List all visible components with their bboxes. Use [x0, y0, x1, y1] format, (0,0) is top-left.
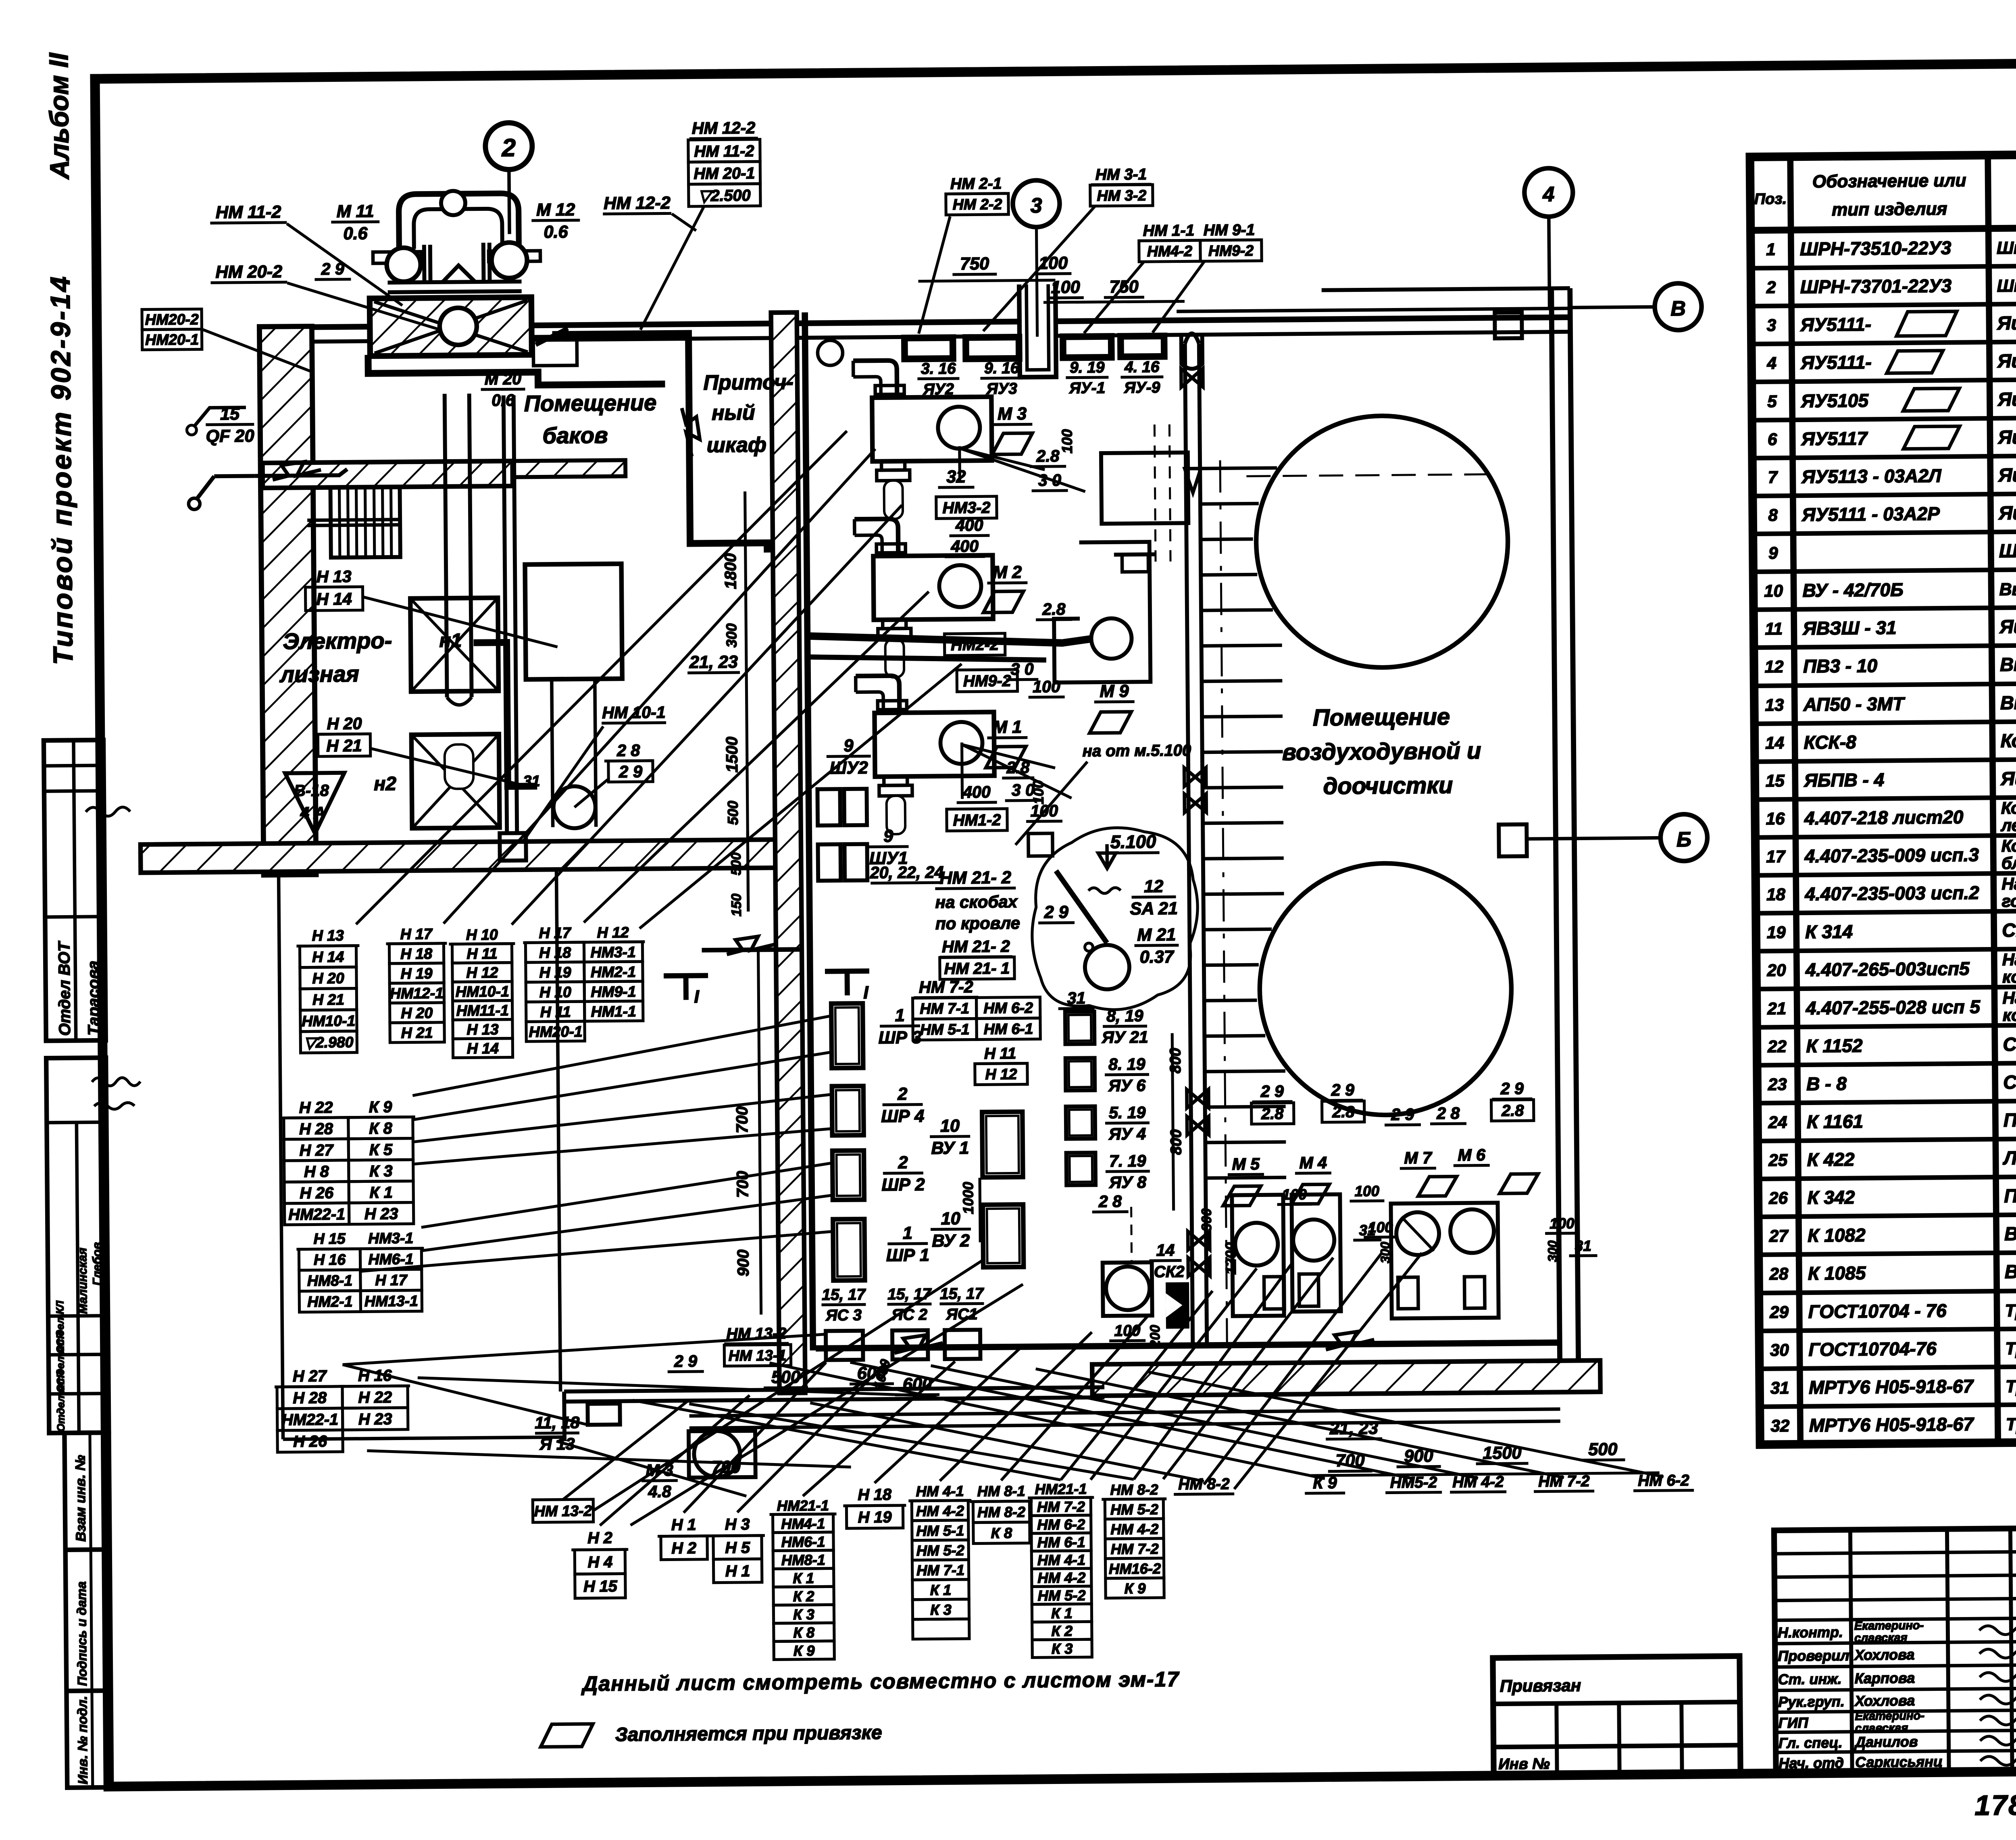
svg-text:КСК-8: КСК-8: [1804, 731, 1856, 753]
svg-text:1: 1: [1766, 240, 1776, 259]
svg-text:28: 28: [1769, 1264, 1789, 1283]
svg-text:20, 22, 24: 20, 22, 24: [870, 863, 944, 882]
svg-text:Н 8: Н 8: [304, 1163, 329, 1180]
svg-text:7: 7: [1768, 468, 1778, 487]
leader from на от м: [1015, 762, 1088, 845]
svg-text:Н 3: Н 3: [725, 1515, 750, 1533]
top dimension row 2: [1043, 277, 1184, 302]
svg-text:К 1: К 1: [793, 1570, 814, 1586]
valve on air pipe 4: [1187, 1089, 1208, 1108]
svg-text:НМ 3-1: НМ 3-1: [1095, 166, 1147, 183]
hall right wall top connection: [1322, 288, 1570, 290]
valve on air pipe 6: [1188, 1231, 1210, 1250]
svg-text:К 1082: К 1082: [1808, 1224, 1866, 1246]
svg-text:Приточ-: Приточ-: [703, 370, 793, 395]
svg-text:4.407-235-009 исп.3: 4.407-235-009 исп.3: [1804, 844, 1979, 866]
svg-text:Н 21: Н 21: [326, 736, 362, 755]
dims 500/600/600 bottom: [764, 1363, 940, 1396]
svg-text:Н 26: Н 26: [293, 1432, 327, 1451]
svg-text:М 21: М 21: [1137, 925, 1176, 945]
label М3 with parallelogram: [992, 404, 1033, 454]
svg-text:7. 19: 7. 19: [1109, 1151, 1146, 1170]
ШР3 cabinet: [831, 1003, 863, 1068]
svg-text:ШР 2: ШР 2: [881, 1175, 925, 1195]
wall stub square В: [1495, 312, 1522, 339]
svg-text:29: 29: [1769, 1303, 1789, 1322]
svg-text:К 9: К 9: [1125, 1580, 1146, 1596]
svg-text:Нач. отд: Нач. отд: [1779, 1755, 1844, 1771]
svg-text:К 3: К 3: [793, 1606, 814, 1623]
svg-text:31: 31: [1359, 1222, 1375, 1238]
svg-text:НМ10-1: НМ10-1: [302, 1012, 355, 1030]
svg-text:5: 5: [1767, 392, 1777, 411]
svg-text:К 5: К 5: [369, 1141, 393, 1159]
ЯУ8 box: [1066, 1153, 1096, 1185]
central vertical wall hatched (shaft): [771, 312, 805, 1393]
svg-text:НМ20-2: НМ20-2: [145, 311, 199, 328]
note: Заполняется при привязке: [541, 1724, 593, 1747]
valve on air pipe 5: [1187, 1116, 1209, 1135]
svg-text:НМ 4-1: НМ 4-1: [1037, 1551, 1085, 1568]
svg-text:по кровле: по кровле: [935, 914, 1020, 933]
electrolysis room bottom wall hatched: [140, 839, 778, 872]
svg-text:Альбом II: Альбом II: [44, 52, 74, 180]
pump unit М3 (upper): [853, 360, 992, 519]
label НМ1-2 box: [947, 809, 1007, 831]
svg-text:блочного ящика ЯБПВ (настенный: блочного ящика ЯБПВ (настенный): [2001, 851, 2016, 873]
svg-text:Ящик управления ЯУ21: Ящик управления ЯУ21: [1998, 500, 2016, 523]
table header: [1754, 166, 2016, 222]
svg-text:НМ3-1: НМ3-1: [590, 943, 636, 961]
ШР1 cabinet: [833, 1219, 865, 1281]
svg-text:конструкция с закладными подве: конструкция с закладными подвесками: [2003, 1003, 2016, 1025]
svg-text:НМ9-2: НМ9-2: [963, 672, 1011, 690]
svg-text:4.407-265-003исп5: 4.407-265-003исп5: [1805, 958, 1970, 980]
svg-text:8: 8: [1768, 506, 1778, 525]
svg-text:100: 100: [1549, 1215, 1574, 1232]
svg-text:8. 19: 8. 19: [1108, 1055, 1145, 1074]
svg-text:НМ 4-2: НМ 4-2: [916, 1503, 964, 1519]
ЯУ6 box: [1066, 1058, 1095, 1091]
svg-text:750: 750: [960, 254, 989, 274]
svg-text:Ящик управления ЯУ6: Ящик управления ЯУ6: [1997, 425, 2016, 448]
svg-text:В-18: В-18: [294, 782, 329, 800]
label НМ3-1/НМ3-2: [1090, 166, 1153, 206]
svg-text:лизная: лизная: [279, 661, 359, 687]
level dash line: [578, 337, 687, 338]
svg-text:Стойка (профиль): Стойка (профиль): [2003, 1070, 2016, 1093]
ВУ2 box: [983, 1205, 1024, 1268]
svg-text:баков: баков: [542, 423, 608, 448]
svg-text:Ввод гибкий: Ввод гибкий: [2005, 1260, 2016, 1282]
svg-text:на скобах: на скобах: [935, 892, 1018, 912]
svg-text:К 9: К 9: [793, 1642, 815, 1659]
svg-text:Н 15: Н 15: [583, 1578, 618, 1596]
svg-text:НМ 13-1: НМ 13-1: [729, 1347, 787, 1364]
svg-text:НМ13-1: НМ13-1: [364, 1292, 418, 1309]
text НМ21-2 на скобах по кровле: [935, 868, 1020, 933]
svg-text:Екатерино-: Екатерино-: [1854, 1619, 1924, 1632]
svg-text:НМ 5-2: НМ 5-2: [1110, 1501, 1158, 1518]
svg-text:ЯУ5111 - 03А2Р: ЯУ5111 - 03А2Р: [1801, 503, 1940, 525]
cable drop to riser (thick): [474, 642, 537, 787]
svg-text:Стойка (профиль): Стойка (профиль): [2002, 918, 2016, 941]
svg-text:АП50 - 3МТ: АП50 - 3МТ: [1803, 693, 1906, 715]
svg-text:17897-02 51: 17897-02 51: [1974, 1788, 2016, 1821]
svg-text:М 20: М 20: [485, 369, 522, 388]
svg-text:19: 19: [1767, 923, 1786, 942]
svg-text:НМ6-1: НМ6-1: [368, 1250, 414, 1268]
svg-text:ВУ - 42/70Б: ВУ - 42/70Б: [1802, 579, 1903, 601]
specification table grid: [1750, 151, 2016, 1445]
svg-text:НМ20-1: НМ20-1: [529, 1023, 582, 1040]
svg-text:2: 2: [1766, 278, 1776, 297]
pump pipes loop: [399, 193, 519, 249]
bottom wall hatched band: [1092, 1360, 1601, 1396]
svg-text:СК2: СК2: [1154, 1263, 1185, 1281]
svg-text:НМ6-1: НМ6-1: [781, 1533, 825, 1550]
svg-text:Поз.: Поз.: [1754, 191, 1787, 208]
fan leaders from bottom stacks to plan (up-right steep): [561, 1253, 1424, 1526]
dim marks 500/150 left shaft: [728, 831, 748, 916]
svg-text:НМ 6-2: НМ 6-2: [983, 999, 1033, 1016]
svg-text:го ящика ЯВЗШ: го ящика ЯВЗШ: [2001, 891, 2016, 911]
svg-text:Н 11: Н 11: [984, 1045, 1016, 1063]
svg-text:Гл. спец.: Гл. спец.: [1779, 1734, 1843, 1751]
label Н11/Н12: [975, 1045, 1027, 1085]
svg-text:НМ 8-2: НМ 8-2: [1110, 1481, 1158, 1498]
leader НМ9-2: [1152, 261, 1205, 333]
svg-text:Данилов: Данилов: [1854, 1733, 1918, 1750]
svg-text:Коробка соединительная СК2: Коробка соединительная СК2: [2000, 728, 2016, 751]
svg-text:Отдел ВОТ: Отдел ВОТ: [55, 940, 74, 1036]
svg-text:12: 12: [1144, 877, 1163, 896]
riser double line: [504, 395, 507, 833]
svg-text:32: 32: [946, 467, 966, 487]
svg-text:НМ 5-1: НМ 5-1: [920, 1021, 970, 1038]
svg-text:Малинская: Малинская: [76, 1247, 90, 1314]
svg-text:750: 750: [1109, 277, 1138, 297]
stack M НМ 4-1/НМ 4-2/НМ 5-1/НМ 5-2/НМ 7-1/К 1/К 3/: [908, 1483, 973, 1639]
svg-text:200: 200: [1148, 1325, 1163, 1348]
svg-text:Н 17: Н 17: [539, 924, 572, 941]
svg-text:Н 17: Н 17: [400, 925, 433, 943]
leader НМ3-2: [982, 206, 1096, 331]
svg-text:ПВ3 - 10: ПВ3 - 10: [1803, 655, 1878, 676]
svg-text:31: 31: [1770, 1378, 1789, 1397]
svg-text:700: 700: [733, 1106, 752, 1133]
svg-text:К 3: К 3: [930, 1601, 952, 1618]
wall left outer hatched: [259, 326, 316, 875]
ЯС3 box: [826, 1331, 863, 1360]
svg-text:НМ11-1: НМ11-1: [456, 1002, 509, 1019]
svg-text:НМ 8-1: НМ 8-1: [977, 1483, 1025, 1500]
table rows: [1761, 233, 2016, 1436]
svg-text:Выключатель автоматический Q: Выключатель автоматический QF20: [2000, 689, 2016, 713]
svg-text:ЯУ5105: ЯУ5105: [1801, 390, 1869, 411]
svg-text:НМ 3-2: НМ 3-2: [1097, 187, 1146, 204]
svg-text:100: 100: [1030, 801, 1058, 820]
pump unit М1 (lower): [856, 675, 995, 835]
svg-text:Н 14: Н 14: [316, 589, 352, 609]
leader НМ1-1: [1083, 262, 1144, 333]
svg-text:Н 28: Н 28: [299, 1120, 333, 1138]
break mark on bottom wall 2: [1326, 1332, 1374, 1350]
svg-text:НМ 5-1: НМ 5-1: [916, 1522, 964, 1539]
svg-text:500: 500: [725, 801, 741, 825]
svg-text:Рук.груп.: Рук.груп.: [1778, 1693, 1845, 1710]
svg-text:2 9: 2 9: [619, 762, 643, 781]
svg-text:ЯУ5111-: ЯУ5111-: [1800, 314, 1871, 335]
svg-text:К 3: К 3: [369, 1162, 393, 1180]
svg-text:Н 1: Н 1: [725, 1562, 750, 1580]
svg-text:24: 24: [1768, 1113, 1787, 1132]
svg-text:Н 12: Н 12: [597, 924, 629, 941]
cloud outline: [1031, 827, 1198, 1010]
svg-text:ЯБПВ - 4: ЯБПВ - 4: [1804, 769, 1884, 791]
label М9 + parallelogram: [1089, 681, 1135, 733]
svg-text:Н 23: Н 23: [364, 1205, 398, 1223]
svg-text:5. 19: 5. 19: [1109, 1103, 1146, 1122]
svg-text:воздуходувной и: воздуходувной и: [1282, 738, 1481, 766]
ШР2 cabinet: [832, 1151, 864, 1200]
svg-text:2.8: 2.8: [1036, 447, 1060, 465]
svg-text:▽2.500: ▽2.500: [698, 187, 751, 205]
svg-text:20: 20: [1766, 961, 1786, 980]
svg-text:Обозначение или: Обозначение или: [1812, 171, 1966, 191]
pump circle with box bottom: [1103, 1262, 1152, 1316]
svg-text:В - 8: В - 8: [1806, 1073, 1847, 1095]
svg-text:К 422: К 422: [1807, 1149, 1855, 1170]
svg-text:Подвеска закладная: Подвеска закладная: [2004, 1184, 2016, 1207]
М9 platform rect: [1054, 542, 1151, 683]
svg-text:НМ1-2: НМ1-2: [953, 811, 1001, 829]
svg-text:ЯУ5113 - 03А2Л: ЯУ5113 - 03А2Л: [1801, 465, 1942, 487]
valve cone 1: [1185, 468, 1201, 493]
svg-text:Комплект установки ящика управ: Комплект установки ящика управ-: [2001, 796, 2016, 818]
stair block: [307, 487, 400, 558]
svg-text:Ящик силовой Я13: Ящик силовой Я13: [1999, 614, 2016, 637]
tank circle 2: [1259, 862, 1512, 1116]
label НМ7-2 + boxes: [912, 977, 1040, 1040]
svg-text:НМ 7-2: НМ 7-2: [919, 978, 973, 997]
svg-text:Екатерино-: Екатерино-: [1855, 1709, 1924, 1723]
wall stub square Б: [1499, 824, 1527, 857]
svg-text:конструкция высотой 800мм с по: конструкция высотой 800мм с полками: [2002, 965, 2016, 987]
hall right wall double line: [1552, 288, 1560, 1393]
svg-text:Глебов: Глебов: [90, 1242, 104, 1286]
svg-text:2 9: 2 9: [1391, 1105, 1414, 1124]
building lower-left outline: [279, 873, 564, 1439]
svg-text:Н 19: Н 19: [539, 964, 571, 981]
break line at shaft mid: [702, 936, 802, 955]
svg-text:Труба полиэтиленовая 6-20: Труба полиэтиленовая 6-20 ПНП: [2006, 1375, 2016, 1397]
svg-text:Н 19: Н 19: [400, 965, 433, 982]
svg-text:НМ 13-2: НМ 13-2: [534, 1502, 592, 1519]
svg-text:150: 150: [729, 893, 744, 916]
svg-text:I: I: [694, 987, 699, 1007]
svg-text:ШРН-73701-22У3: ШРН-73701-22У3: [1800, 275, 1951, 297]
QF20 switch symbol: [188, 476, 255, 510]
label НМ3-2 box: [936, 496, 997, 518]
ШУ cabinet boxes pair 2: [818, 844, 867, 881]
svg-text:Н 27: Н 27: [293, 1367, 327, 1385]
svg-text:25: 25: [1768, 1151, 1788, 1170]
valve on air pipe 1: [1181, 368, 1203, 387]
svg-text:НМ 5-2: НМ 5-2: [916, 1542, 964, 1559]
air pipe top cap: [1185, 333, 1199, 343]
top dimension row 1: [918, 254, 1072, 281]
svg-text:Н 10: Н 10: [539, 983, 572, 1001]
svg-text:4: 4: [1766, 354, 1776, 373]
svg-text:5.100: 5.100: [1110, 831, 1156, 852]
svg-text:Н 17: Н 17: [375, 1272, 408, 1289]
svg-text:Н 19: Н 19: [858, 1508, 892, 1526]
svg-text:800: 800: [1168, 1129, 1185, 1155]
svg-text:Н 1: Н 1: [671, 1516, 696, 1534]
svg-text:Б: Б: [1677, 828, 1691, 851]
electrolyzer unit 2 (square with X): [411, 734, 500, 828]
svg-text:НМ 5-2: НМ 5-2: [1037, 1587, 1085, 1604]
svg-text:Отдел АСП: Отдел АСП: [54, 1370, 67, 1432]
svg-text:М 2: М 2: [993, 563, 1022, 583]
svg-text:13: 13: [1765, 695, 1784, 714]
svg-text:НМ 1-1: НМ 1-1: [1143, 222, 1195, 239]
svg-text:ГОСТ10704-76: ГОСТ10704-76: [1808, 1338, 1937, 1360]
svg-text:НМ 7-1: НМ 7-1: [916, 1562, 964, 1579]
svg-text:0.6: 0.6: [343, 224, 368, 243]
svg-text:9: 9: [1768, 543, 1778, 562]
ЯС1 box: [945, 1330, 981, 1359]
svg-text:Н 10: Н 10: [466, 926, 498, 943]
svg-text:НМ 7-2: НМ 7-2: [1037, 1498, 1085, 1515]
bottom foundation lines right: [689, 1409, 1560, 1416]
label М7 + para: [1400, 1148, 1457, 1196]
svg-text:НМ 7-1: НМ 7-1: [920, 1000, 969, 1017]
svg-text:I: I: [863, 983, 868, 1003]
ШУ cabinet boxes pair 1: [817, 789, 867, 826]
svg-text:3 0: 3 0: [1012, 781, 1035, 799]
svg-text:0.6: 0.6: [544, 222, 568, 241]
svg-text:26: 26: [1768, 1189, 1788, 1207]
svg-text:Хохлова: Хохлова: [1854, 1692, 1915, 1709]
svg-text:Выключатель пакетный SA21: Выключатель пакетный SA21: [2000, 651, 2016, 675]
svg-text:8, 19: 8, 19: [1106, 1006, 1143, 1025]
svg-text:Настенная одиночная кабельна: Настенная одиночная кабельная: [2002, 948, 2016, 969]
svg-text:НМ 8-2: НМ 8-2: [977, 1504, 1025, 1521]
stack E: [281, 1098, 416, 1225]
svg-text:2.8: 2.8: [1501, 1102, 1524, 1120]
svg-text:4.407-218 лист20: 4.407-218 лист20: [1804, 806, 1964, 828]
label 29/2.8 box e: [1491, 1079, 1534, 1121]
СК2 junction box (dark with arrow): [1166, 1282, 1189, 1328]
svg-text:Н 14: Н 14: [467, 1040, 499, 1057]
leader НМ12-2 mid: [672, 214, 696, 231]
svg-text:400: 400: [962, 783, 991, 801]
svg-text:ЯУ5117: ЯУ5117: [1801, 428, 1868, 449]
break mark on bottom wall 1: [894, 1335, 943, 1353]
svg-text:Н 22: Н 22: [358, 1388, 392, 1407]
svg-text:на от м.5.100: на от м.5.100: [1083, 741, 1191, 760]
stamp block A (Отдел ВОТ / Тарасова): [44, 740, 132, 1041]
svg-text:Труба стальная тонкостенная Т3: Труба стальная тонкостенная Т32×1,8: [2005, 1336, 2016, 1359]
svg-text:Помещение: Помещение: [1313, 704, 1450, 731]
pump М21 circle: [1085, 945, 1129, 990]
svg-text:К 1152: К 1152: [1806, 1035, 1863, 1056]
svg-text:НМ10-1: НМ10-1: [456, 983, 509, 1000]
svg-text:К 314: К 314: [1805, 921, 1853, 942]
dim line lower left: [1172, 1033, 1173, 1211]
label НМ13-2 bottom single: [533, 1499, 593, 1522]
feeder cable across hall (thick): [810, 634, 1092, 662]
ВУ1 box: [982, 1112, 1023, 1178]
svg-text:МРТУ6 Н05-918-67: МРТУ6 Н05-918-67: [1809, 1376, 1974, 1398]
svg-text:М 3: М 3: [998, 404, 1027, 424]
svg-text:НМ 21- 2: НМ 21- 2: [942, 937, 1010, 956]
dashed verticals near СК2: [1131, 1207, 1132, 1262]
svg-text:Ящик силовой ЯС1 ÷ ЯС3: Ящик силовой ЯС1 ÷ ЯС3: [2000, 766, 2016, 789]
svg-text:2: 2: [898, 1153, 908, 1172]
svg-text:Н.контр.: Н.контр.: [1778, 1624, 1843, 1641]
stamp block B (Отдел КЛ/АСП, Малинская, Глебов): [46, 1057, 143, 1433]
label М4 + para: [1291, 1153, 1332, 1204]
М9 pump circle: [1091, 618, 1132, 659]
svg-text:НМ1-1: НМ1-1: [591, 1003, 636, 1020]
svg-text:2.8: 2.8: [1042, 600, 1066, 618]
svg-text:НМ3-2: НМ3-2: [942, 499, 990, 517]
svg-text:Н 22: Н 22: [299, 1099, 333, 1117]
svg-text:НМ2-1: НМ2-1: [307, 1293, 353, 1310]
svg-text:ЯУ5111-: ЯУ5111-: [1800, 352, 1872, 373]
motor М5 unit: [1232, 1195, 1284, 1316]
svg-text:НМ12-1: НМ12-1: [390, 985, 444, 1002]
stack N НМ 8-1/НМ 8-2/К 8: [970, 1482, 1033, 1543]
leader lines row3: [962, 742, 1072, 799]
svg-text:1500: 1500: [723, 737, 741, 772]
svg-text:Настенная установка однофидерн: Настенная установка однофидерно-: [2001, 872, 2016, 893]
svg-text:К 1085: К 1085: [1808, 1262, 1866, 1284]
svg-text:НМ8-1: НМ8-1: [781, 1551, 825, 1568]
wall hook symbol: [187, 408, 246, 435]
svg-text:2 9: 2 9: [1500, 1079, 1524, 1098]
tank rect in baki room: [525, 564, 622, 679]
svg-text:К 3: К 3: [1052, 1640, 1073, 1657]
svg-text:НМ 7-2: НМ 7-2: [1111, 1540, 1159, 1557]
svg-text:3 0: 3 0: [1010, 660, 1034, 678]
stamp cells Взам.инв.№ / Подпись и дата / Инв.№ подл.: [65, 1432, 112, 1788]
svg-text:ШР 4: ШР 4: [881, 1107, 924, 1126]
svg-text:К 2: К 2: [793, 1588, 814, 1605]
svg-text:Инв №: Инв №: [1498, 1755, 1550, 1773]
valve on air pipe 3: [1185, 794, 1206, 812]
parallelogram in row 4 designation: [1887, 351, 1943, 373]
svg-text:3: 3: [1767, 316, 1776, 335]
svg-text:3. 16: 3. 16: [921, 360, 956, 378]
svg-text:ШР 1: ШР 1: [886, 1245, 929, 1265]
svg-text:17: 17: [1766, 847, 1786, 866]
svg-text:ГОСТ10704 - 76: ГОСТ10704 - 76: [1808, 1300, 1947, 1322]
svg-text:2.8: 2.8: [1261, 1105, 1283, 1123]
svg-text:Типовой проект 902-9-14: Типовой проект 902-9-14: [45, 275, 79, 665]
pump wall band cross-hatched: [370, 297, 532, 356]
svg-text:Н 5: Н 5: [725, 1539, 750, 1557]
label НМ1-1/НМ4-2: [1138, 222, 1200, 262]
svg-text:14: 14: [1765, 733, 1784, 752]
pump unit М2 (middle): [854, 518, 993, 678]
vertical dim line in shaft: [721, 491, 748, 912]
svg-text:4.407-255-028 исп 5: 4.407-255-028 исп 5: [1806, 996, 1981, 1018]
svg-text:К 1161: К 1161: [1807, 1111, 1863, 1132]
